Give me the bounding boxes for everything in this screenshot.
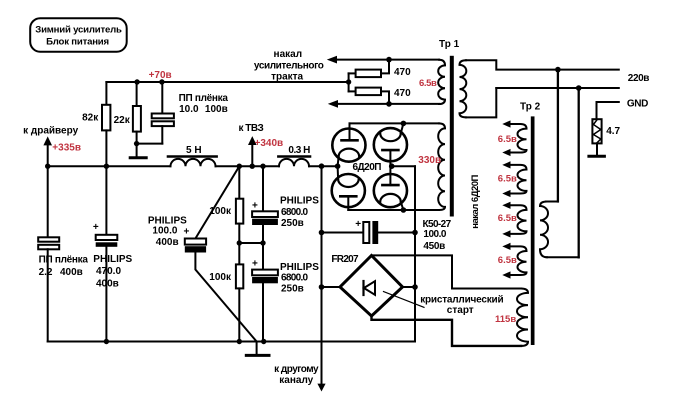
Tr2 heater winding 2 xyxy=(509,165,527,194)
resistor 100k lower xyxy=(236,264,243,288)
bridge left lead xyxy=(322,286,341,288)
ground 22k xyxy=(136,144,138,157)
svg-text:накал 6Д20П: накал 6Д20П xyxy=(470,174,481,228)
svg-text:PHILIPS: PHILIPS xyxy=(280,195,319,206)
svg-text:+: + xyxy=(93,222,99,233)
node rail / left drop wire xyxy=(319,163,325,169)
svg-text:PHILIPS: PHILIPS xyxy=(280,262,319,273)
svg-text:4.7: 4.7 xyxy=(606,126,620,137)
svg-text:усилительного: усилительного xyxy=(254,60,324,71)
diode symbol inside xyxy=(362,281,364,295)
Tr2 primary winding xyxy=(540,202,548,258)
Tr1 330v winding xyxy=(438,123,445,210)
svg-text:+: + xyxy=(184,227,190,238)
wire ground bus xyxy=(48,341,415,343)
svg-text:400в: 400в xyxy=(60,267,83,278)
tube TR 6D20P xyxy=(374,128,407,161)
svg-text:250в: 250в xyxy=(281,218,304,229)
svg-text:ПП плёнка: ПП плёнка xyxy=(39,255,89,266)
callout line crystal start xyxy=(384,292,425,308)
node +70v / film cap 10.0 xyxy=(159,79,164,84)
transformer Tr1 core xyxy=(450,56,454,217)
capacitor PP-film 10.0 xyxy=(161,82,163,114)
resistor 82k xyxy=(105,82,107,105)
ground 4.7 xyxy=(589,155,605,158)
node 22k / cap10 / ground xyxy=(134,141,139,146)
capacitor PHILIPS 6800 lower xyxy=(252,270,278,276)
wire 220v drop to Tr2 primary top xyxy=(557,70,559,202)
svg-text:100в: 100в xyxy=(205,104,228,115)
node tube cathodes xyxy=(335,163,341,169)
svg-text:каналу: каналу xyxy=(279,375,313,386)
svg-text:+340в: +340в xyxy=(255,138,284,149)
resistor 470 lower xyxy=(356,88,381,96)
node bus / 100k chain xyxy=(237,339,242,344)
svg-text:накал: накал xyxy=(274,49,303,60)
svg-text:450в: 450в xyxy=(423,241,445,252)
svg-text:100.0: 100.0 xyxy=(423,229,446,240)
svg-text:0.3 Н: 0.3 Н xyxy=(288,145,310,156)
resistor 470 upper xyxy=(356,70,381,78)
svg-text:ПП плёнка: ПП плёнка xyxy=(179,93,229,104)
svg-text:+: + xyxy=(252,200,258,211)
node bridge right xyxy=(412,284,418,290)
svg-text:100к: 100к xyxy=(209,272,232,283)
capacitor PHILIPS 470.0 xyxy=(105,166,107,235)
node 220v return / Tr2 primary xyxy=(576,85,582,91)
svg-text:10.0: 10.0 xyxy=(179,104,199,115)
svg-text:старт: старт xyxy=(447,305,474,316)
node bus / 6800 chain xyxy=(261,339,266,344)
svg-text:100.0: 100.0 xyxy=(152,226,177,237)
Tr1 6.5v winding xyxy=(438,60,445,104)
resistor 4.7 xyxy=(596,102,598,119)
node heater top wire xyxy=(386,57,392,63)
svg-text:6.5в: 6.5в xyxy=(498,134,517,145)
node bus / 470.0 cap xyxy=(104,339,109,344)
wire B+ rail xyxy=(48,165,171,167)
svg-text:100к: 100к xyxy=(209,206,232,217)
svg-text:Тр 1: Тр 1 xyxy=(439,39,460,50)
node 100k midpoint xyxy=(237,240,242,245)
inductor 5H xyxy=(171,159,216,166)
capacitor PP-film 2.2 xyxy=(47,166,49,237)
svg-text:+: + xyxy=(355,219,361,230)
svg-text:400в: 400в xyxy=(156,237,179,248)
svg-text:GND: GND xyxy=(627,99,648,110)
node heater feed / 470 pair xyxy=(346,79,351,84)
node +70v / 22k xyxy=(134,79,139,84)
wire 220v second line xyxy=(496,87,619,89)
Tr2 heater winding 4 xyxy=(509,246,527,275)
wire Tr1 primary bottom lead xyxy=(466,88,496,117)
heater arrows (to amplifier tract) xyxy=(337,59,440,61)
svg-text:+335в: +335в xyxy=(52,143,81,154)
svg-text:6800.0: 6800.0 xyxy=(281,207,309,218)
capacitor PHILIPS 100.0 diagonal wires xyxy=(195,166,239,238)
resistor 22k xyxy=(136,82,138,106)
node tube bottom wire / 330v winding xyxy=(401,207,407,213)
svg-text:FR207: FR207 xyxy=(331,254,359,265)
node rail / 82k / 470.0 cap xyxy=(104,164,109,169)
svg-text:470: 470 xyxy=(394,88,411,99)
svg-text:+: + xyxy=(252,258,258,269)
svg-text:6800.0: 6800.0 xyxy=(281,273,309,284)
svg-text:470: 470 xyxy=(394,67,411,78)
node K50-27 right xyxy=(412,230,418,236)
svg-text:Зимний усилитель: Зимний усилитель xyxy=(35,24,122,35)
resistor 100k upper xyxy=(238,166,240,199)
svg-text:2.2: 2.2 xyxy=(39,267,53,278)
wire second drop to Tr2 primary bottom xyxy=(578,88,580,257)
svg-text:к ТВЗ: к ТВЗ xyxy=(239,123,264,134)
svg-text:330в: 330в xyxy=(418,155,441,166)
node bridge left xyxy=(319,284,325,290)
capacitor K50-27 wires xyxy=(322,232,364,234)
title box xyxy=(30,18,127,52)
resistor 470 pair bracket xyxy=(348,73,350,91)
node rail / 100k chain xyxy=(237,164,242,169)
svg-text:6.5в: 6.5в xyxy=(498,255,517,266)
ground mid bus xyxy=(256,342,258,355)
svg-text:82к: 82к xyxy=(82,113,99,124)
Tr1 primary winding xyxy=(460,60,467,117)
node +335v rail left xyxy=(45,164,50,169)
inductor 0.3H xyxy=(279,159,309,166)
Tr2 115v winding xyxy=(517,289,528,346)
tube bottom wire xyxy=(348,209,439,211)
bridge right lead xyxy=(403,286,416,288)
svg-text:115в: 115в xyxy=(495,314,516,325)
svg-text:220в: 220в xyxy=(628,73,649,84)
svg-text:6Д20П: 6Д20П xyxy=(353,162,382,173)
capacitor PHILIPS 6800 upper xyxy=(262,166,264,211)
node tube plates xyxy=(389,163,395,169)
svg-text:6.5в: 6.5в xyxy=(419,78,437,89)
node rail / TVZ arrow xyxy=(250,164,255,169)
wire rail right xyxy=(309,165,338,167)
svg-text:Блок питания: Блок питания xyxy=(46,37,109,48)
svg-text:6.5в: 6.5в xyxy=(498,174,517,185)
node heater bottom wire xyxy=(386,101,392,107)
transformer Tr2 core xyxy=(531,116,535,345)
svg-text:кристаллический: кристаллический xyxy=(420,294,503,305)
wire Tr1 primary top lead to 220v xyxy=(466,60,619,69)
svg-text:6.5в: 6.5в xyxy=(498,213,517,224)
svg-text:5 Н: 5 Н xyxy=(186,145,202,156)
svg-text:Тр 2: Тр 2 xyxy=(520,102,541,113)
tube TL 6D20P xyxy=(332,129,365,162)
tube top wire xyxy=(350,122,440,124)
node 220v line / Tr2 primary xyxy=(555,67,561,73)
svg-text:22к: 22к xyxy=(114,115,131,126)
node tube top wire / 330v winding xyxy=(401,121,407,127)
node rail / 6800 chain xyxy=(260,164,265,169)
svg-text:к другому: к другому xyxy=(274,364,319,375)
wire connector between chains xyxy=(239,242,263,244)
svg-text:+70в: +70в xyxy=(149,70,172,81)
svg-text:470.0: 470.0 xyxy=(96,266,121,277)
wire tube plates node to right vertical xyxy=(392,165,415,167)
wire cap10 bottom to 22k node xyxy=(137,143,163,145)
bridge top corner path to 115v top xyxy=(372,255,522,288)
tube BL 6D20P xyxy=(332,174,365,207)
arrow to driver xyxy=(47,145,49,166)
svg-text:PHILIPS: PHILIPS xyxy=(93,254,132,265)
svg-text:к драйверу: к драйверу xyxy=(23,126,79,137)
arrow to TVZ xyxy=(251,145,253,167)
node 6800 midpoint xyxy=(260,240,265,245)
svg-text:тракта: тракта xyxy=(271,72,303,83)
bridge bottom corner path to 115v bottom xyxy=(372,316,522,346)
arrow to other channel xyxy=(321,166,323,384)
wire GND line xyxy=(597,101,619,103)
tube BR 6D20P xyxy=(374,174,407,207)
svg-text:250в: 250в xyxy=(281,284,304,295)
Tr2 heater winding 3 xyxy=(509,205,527,234)
Tr2 heater winding 1 xyxy=(509,124,527,153)
svg-text:400в: 400в xyxy=(96,279,119,290)
wire +70v horizontal line xyxy=(106,81,348,83)
node K50-27 left xyxy=(319,230,325,236)
wire rail middle xyxy=(216,165,280,167)
bridge rectifier FR207 diamond xyxy=(340,256,403,317)
